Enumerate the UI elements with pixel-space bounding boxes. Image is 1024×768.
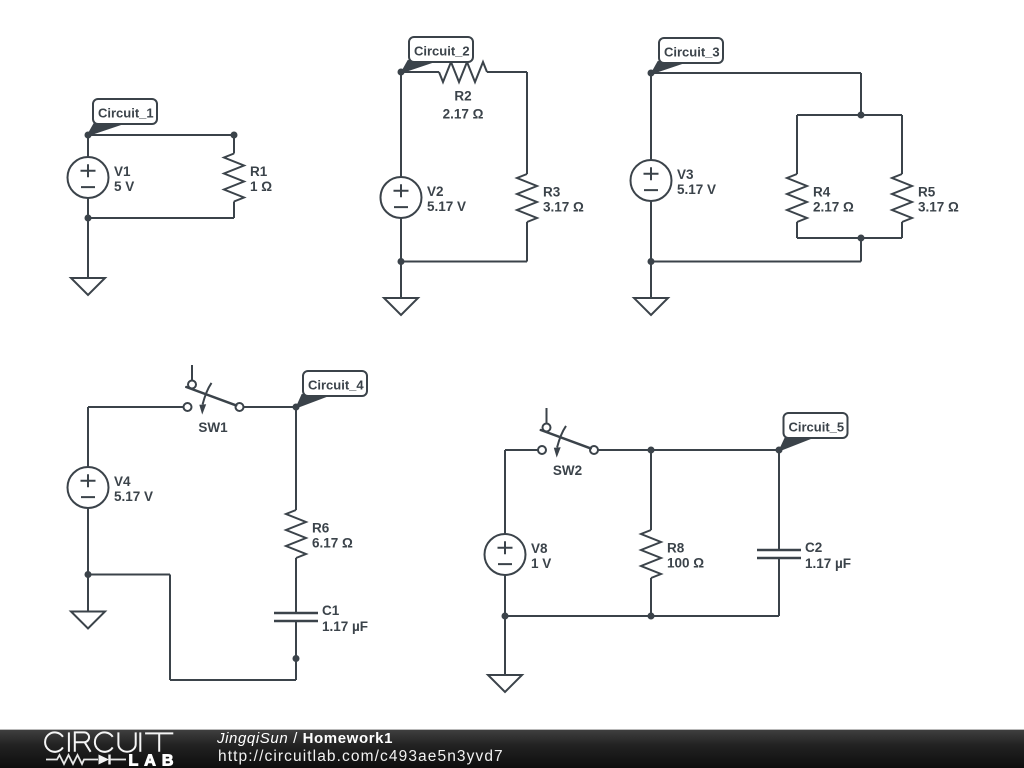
junction (293, 404, 300, 411)
svg-text:Circuit_1: Circuit_1 (98, 106, 154, 121)
wire (796, 115, 798, 174)
label V2 5.17 V (427, 184, 466, 214)
svg-text:R1: R1 (250, 164, 268, 179)
wire (295, 558, 297, 613)
voltage source V2 (381, 177, 422, 218)
svg-text:SW1: SW1 (198, 420, 228, 435)
svg-text:R3: R3 (543, 185, 561, 200)
wire (796, 222, 798, 238)
svg-text:Circuit_2: Circuit_2 (414, 44, 470, 59)
wire (87, 575, 89, 612)
svg-text:1.17 µF: 1.17 µF (805, 556, 851, 571)
svg-text:C1: C1 (322, 603, 340, 618)
wire (650, 73, 652, 160)
ground (634, 298, 668, 315)
wire (401, 261, 527, 263)
wire (87, 407, 89, 467)
resistor R6 (286, 510, 306, 558)
junction (648, 447, 655, 454)
resistor R2 (439, 62, 487, 82)
wire (88, 217, 234, 219)
wire (233, 202, 235, 219)
label V3 5.17 V (677, 167, 716, 197)
svg-text:1 V: 1 V (531, 556, 551, 571)
voltage source V3 (631, 160, 672, 201)
svg-text:R5: R5 (918, 185, 936, 200)
wire (778, 450, 780, 550)
voltage source V1 (68, 157, 109, 198)
wire (87, 508, 89, 575)
ground (71, 278, 105, 295)
wire (244, 406, 297, 408)
ground (488, 675, 522, 692)
junction (648, 613, 655, 620)
svg-text:V1: V1 (114, 164, 131, 179)
wire (401, 71, 439, 73)
voltage source V8 (485, 534, 526, 575)
wire (504, 616, 506, 675)
node Circuit_3 label flag (651, 38, 723, 74)
svg-text:R6: R6 (312, 521, 330, 536)
wire (797, 237, 902, 239)
svg-text:Circuit_5: Circuit_5 (789, 420, 845, 435)
svg-text:2.17 Ω: 2.17 Ω (443, 107, 484, 122)
switch SW1 (184, 365, 244, 415)
CircuitLab logo (0, 729, 200, 768)
wire (505, 449, 538, 451)
ground (71, 612, 105, 629)
wire (505, 615, 779, 617)
wire (504, 575, 506, 616)
label R4 2.17 Ω (813, 185, 854, 215)
svg-text:V3: V3 (677, 167, 694, 182)
wire (504, 450, 506, 534)
wire (901, 115, 903, 174)
svg-text:C2: C2 (805, 540, 822, 555)
svg-text:R4: R4 (813, 185, 831, 200)
svg-text:5.17 V: 5.17 V (114, 489, 153, 504)
label V4 5.17 V (114, 474, 153, 504)
svg-text:2.17 Ω: 2.17 Ω (813, 200, 854, 215)
label R2 2.17 Ω (443, 89, 484, 122)
label V8 1 V (531, 541, 551, 571)
svg-text:6.17 Ω: 6.17 Ω (312, 536, 353, 551)
label R6 6.17 Ω (312, 521, 353, 551)
wire (169, 575, 171, 681)
capacitor C1 (274, 613, 318, 621)
node Circuit_4 label flag (296, 371, 367, 408)
junction (858, 235, 865, 242)
svg-text:5 V: 5 V (114, 179, 134, 194)
junction (776, 447, 783, 454)
label R3 3.17 Ω (543, 185, 584, 215)
wire (797, 114, 902, 116)
wire (526, 222, 528, 262)
wire (400, 218, 402, 262)
voltage source V4 (68, 467, 109, 508)
svg-text:5.17 V: 5.17 V (427, 199, 466, 214)
svg-text:R8: R8 (667, 541, 685, 556)
svg-text:V8: V8 (531, 541, 548, 556)
wire (860, 238, 862, 262)
footer bar (0, 729, 1024, 768)
junction (502, 613, 509, 620)
capacitor C2 (757, 550, 801, 558)
svg-text:1 Ω: 1 Ω (250, 179, 272, 194)
junction (85, 215, 92, 222)
svg-text:Circuit_3: Circuit_3 (664, 45, 720, 60)
svg-text:Circuit_4: Circuit_4 (308, 378, 364, 393)
resistor R8 (641, 530, 661, 578)
label C1 1.17 µF (322, 603, 368, 634)
ground (384, 298, 418, 315)
wire (295, 407, 297, 510)
wire (651, 261, 861, 263)
junction (858, 112, 865, 119)
resistor R1 (224, 154, 244, 202)
junction (85, 571, 92, 578)
junction (85, 132, 92, 139)
svg-text:3.17 Ω: 3.17 Ω (543, 200, 584, 215)
wire (88, 406, 184, 408)
wire (651, 72, 861, 74)
wire (295, 621, 297, 680)
wire (400, 72, 402, 177)
wire (650, 262, 652, 299)
label R8 100 Ω (667, 541, 704, 571)
resistor R5 (892, 174, 912, 222)
wire (233, 135, 235, 154)
svg-text:V2: V2 (427, 184, 444, 199)
label C2 1.17 µF (805, 540, 851, 571)
svg-text:R2: R2 (454, 89, 471, 104)
label R5 3.17 Ω (918, 185, 959, 215)
label V1 5 V (114, 164, 134, 194)
wire (87, 135, 89, 157)
junction (231, 132, 238, 139)
svg-text:LAB: LAB (129, 753, 180, 768)
junction (293, 655, 300, 662)
svg-text:5.17 V: 5.17 V (677, 182, 716, 197)
label R1 1 Ω (250, 164, 272, 194)
resistor R4 (787, 174, 807, 222)
wire (87, 218, 89, 278)
wire (87, 198, 89, 218)
wire (88, 134, 234, 136)
resistor R3 (517, 174, 537, 222)
svg-text:100 Ω: 100 Ω (667, 556, 704, 571)
node Circuit_2 label flag (401, 37, 473, 73)
svg-text:3.17 Ω: 3.17 Ω (918, 200, 959, 215)
junction (398, 258, 405, 265)
svg-text:SW2: SW2 (553, 463, 582, 478)
node Circuit_5 label flag (779, 413, 848, 451)
switch SW2 (538, 408, 598, 458)
wire (88, 574, 170, 576)
junction (398, 69, 405, 76)
wire (901, 222, 903, 238)
wire (650, 578, 652, 616)
svg-text:1.17 µF: 1.17 µF (322, 619, 368, 634)
wire (170, 679, 296, 681)
wire (860, 73, 862, 115)
junction (648, 70, 655, 77)
wire (598, 449, 779, 451)
wire (650, 450, 652, 530)
wire (487, 71, 527, 73)
wire (526, 72, 528, 174)
svg-text:V4: V4 (114, 474, 131, 489)
wire (778, 558, 780, 616)
wire (650, 201, 652, 262)
node Circuit_1 label flag (87, 99, 157, 136)
wire (400, 262, 402, 299)
junction (648, 258, 655, 265)
